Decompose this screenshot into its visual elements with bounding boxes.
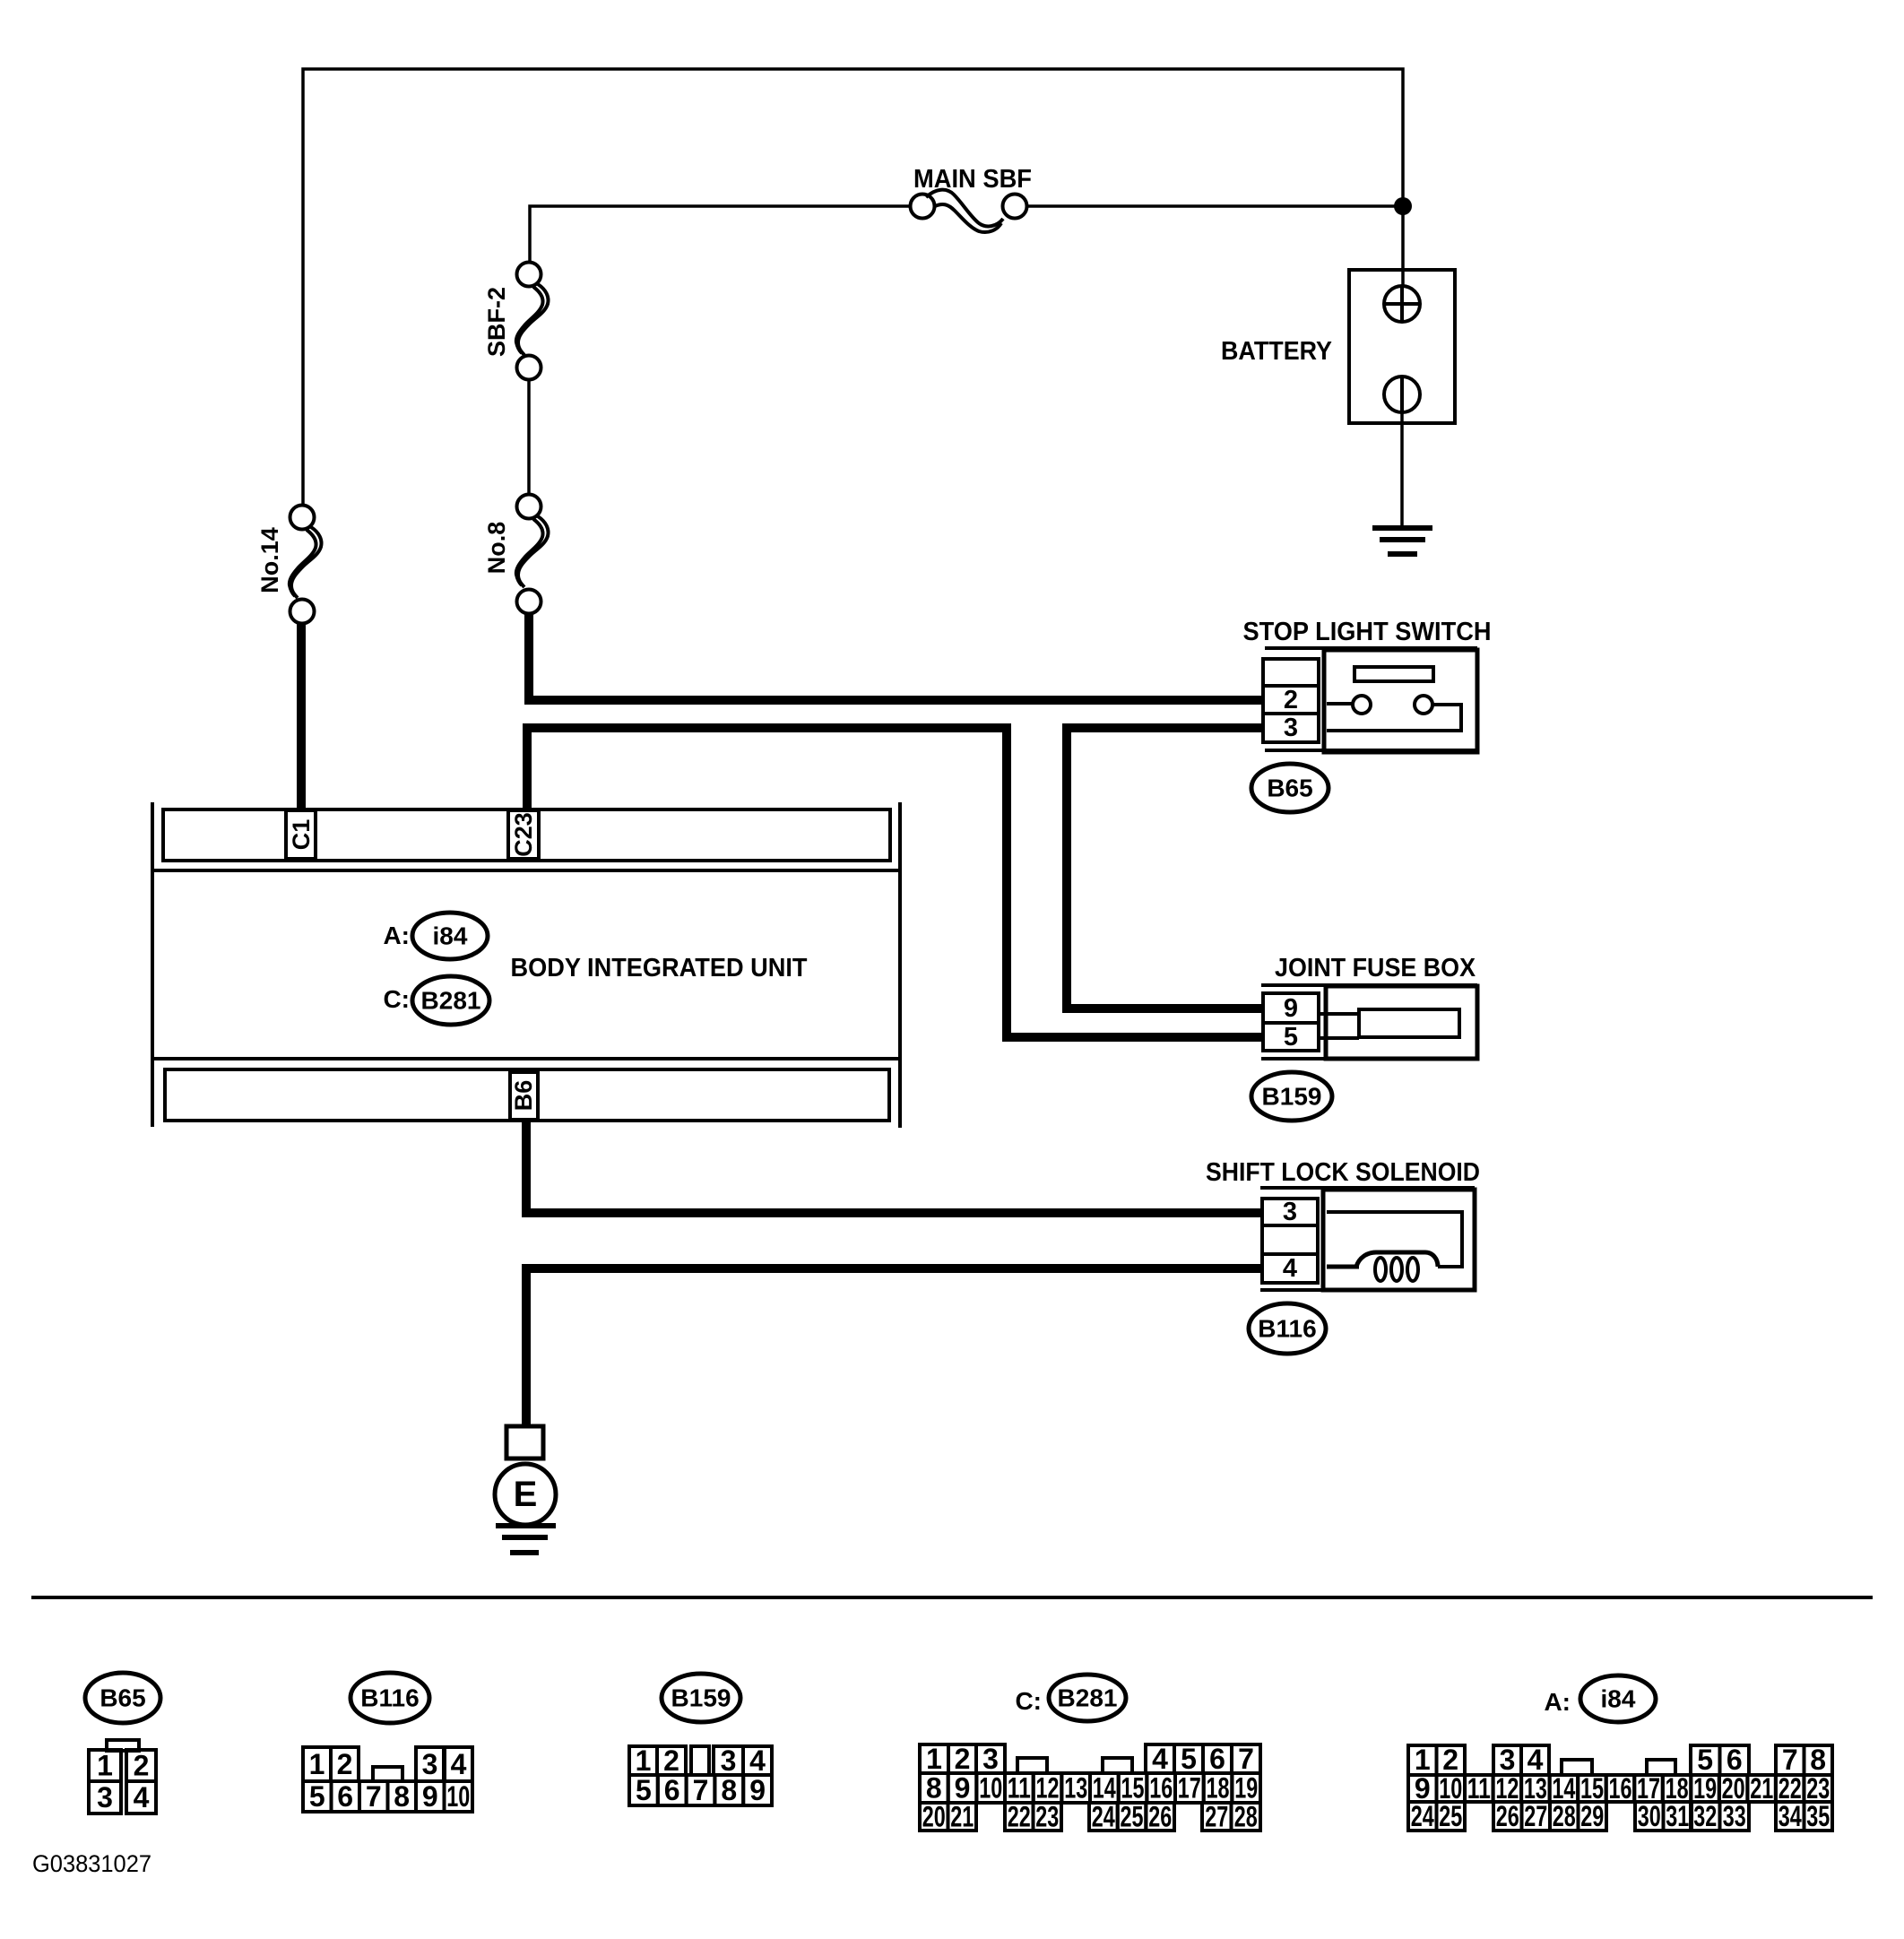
svg-text:JOINT FUSE BOX: JOINT FUSE BOX	[1275, 954, 1476, 982]
svg-text:3: 3	[982, 1743, 999, 1775]
svg-text:12: 12	[1036, 1772, 1060, 1805]
svg-text:SHIFT LOCK SOLENOID: SHIFT LOCK SOLENOID	[1206, 1158, 1480, 1187]
svg-text:27: 27	[1524, 1800, 1547, 1832]
node A: i84 reference	[383, 913, 488, 959]
svg-text:3: 3	[1500, 1744, 1516, 1776]
svg-text:22: 22	[1008, 1801, 1031, 1833]
fuse No.8	[516, 495, 549, 614]
wire No.8 to stop light switch pin 2 (thick)	[529, 613, 1263, 700]
connector B116	[1249, 1303, 1326, 1354]
connector B65	[1251, 764, 1328, 812]
stop light switch SW1	[1263, 648, 1477, 752]
svg-text:3: 3	[1283, 1198, 1297, 1226]
connector B281 pinout	[920, 1675, 1260, 1833]
wire C23 to joint fuse box pin 5 (thick)	[527, 728, 1263, 1037]
svg-text:3: 3	[97, 1781, 113, 1813]
svg-text:C:: C:	[1015, 1687, 1042, 1715]
svg-text:4: 4	[1283, 1254, 1297, 1283]
svg-text:STOP LIGHT SWITCH: STOP LIGHT SWITCH	[1243, 618, 1492, 646]
svg-text:7: 7	[1238, 1743, 1254, 1775]
svg-text:MAIN SBF: MAIN SBF	[913, 165, 1032, 194]
svg-text:4: 4	[1528, 1744, 1544, 1776]
svg-text:11: 11	[1008, 1772, 1031, 1805]
svg-text:BODY INTEGRATED UNIT: BODY INTEGRATED UNIT	[511, 954, 808, 982]
connector B159 pinout	[629, 1674, 772, 1806]
svg-text:7: 7	[1782, 1744, 1798, 1776]
wire SBF-2 to No.8	[527, 380, 531, 495]
svg-text:No.8: No.8	[483, 522, 510, 575]
svg-text:29: 29	[1580, 1800, 1604, 1832]
svg-text:31: 31	[1666, 1800, 1689, 1832]
svg-text:14: 14	[1093, 1772, 1116, 1805]
svg-text:9: 9	[1284, 994, 1298, 1023]
svg-text:4: 4	[749, 1744, 766, 1777]
fuse MAIN SBF	[911, 190, 1027, 232]
wire No.14 to C1 (thick)	[297, 623, 306, 811]
body integrated unit U1	[152, 802, 900, 1128]
svg-text:6: 6	[1727, 1744, 1743, 1776]
svg-text:8: 8	[721, 1774, 737, 1806]
svg-text:C:: C:	[383, 985, 410, 1013]
svg-text:27: 27	[1205, 1801, 1228, 1833]
separator line	[31, 1596, 1873, 1599]
wire junction to MAIN SBF	[1026, 204, 1403, 208]
pin C1	[286, 810, 316, 859]
wire battery top feed	[303, 69, 1403, 506]
svg-text:16: 16	[1609, 1772, 1632, 1805]
svg-text:4: 4	[451, 1748, 467, 1780]
svg-text:1: 1	[309, 1748, 325, 1780]
wire stop light switch pin 3 to joint fuse box pin 9 (thick)	[1067, 728, 1263, 1008]
svg-text:B6: B6	[510, 1080, 537, 1112]
svg-text:24: 24	[1411, 1800, 1434, 1832]
svg-text:5: 5	[1284, 1023, 1298, 1052]
svg-text:3: 3	[422, 1748, 438, 1780]
svg-text:C1: C1	[288, 819, 315, 851]
svg-text:32: 32	[1693, 1800, 1717, 1832]
pin B6	[510, 1072, 538, 1120]
svg-text:8: 8	[926, 1772, 942, 1805]
svg-text:19: 19	[1234, 1772, 1258, 1805]
svg-text:5: 5	[1697, 1744, 1713, 1776]
svg-text:2: 2	[1284, 686, 1298, 714]
svg-text:6: 6	[337, 1780, 353, 1813]
svg-text:10: 10	[979, 1772, 1002, 1805]
svg-text:1: 1	[97, 1750, 113, 1782]
svg-text:1: 1	[926, 1743, 942, 1775]
svg-text:C23: C23	[510, 812, 537, 857]
wire B6 to shift lock solenoid pin 3 (thick)	[526, 1121, 1262, 1213]
svg-text:15: 15	[1121, 1772, 1145, 1805]
svg-text:26: 26	[1148, 1801, 1172, 1833]
svg-text:2: 2	[134, 1750, 150, 1782]
svg-text:4: 4	[134, 1781, 150, 1813]
fuse SBF-2	[516, 263, 549, 380]
svg-text:28: 28	[1553, 1800, 1576, 1832]
svg-text:24: 24	[1092, 1801, 1115, 1833]
svg-text:28: 28	[1234, 1801, 1258, 1833]
svg-text:34: 34	[1779, 1800, 1802, 1832]
svg-text:1: 1	[636, 1744, 652, 1777]
joint fuse box F1	[1261, 985, 1477, 1059]
battery B1	[1349, 206, 1455, 526]
svg-text:20: 20	[922, 1801, 946, 1833]
svg-text:i84: i84	[433, 922, 468, 950]
node battery junction	[1394, 197, 1412, 215]
svg-text:17: 17	[1178, 1772, 1201, 1805]
wire shift lock solenoid pin 4 to ground E (thick)	[526, 1268, 1262, 1427]
svg-text:B65: B65	[100, 1684, 145, 1712]
connector i84 pinout	[1408, 1675, 1832, 1832]
svg-text:B116: B116	[1258, 1315, 1316, 1343]
connector B159	[1251, 1072, 1332, 1121]
svg-text:2: 2	[663, 1744, 679, 1777]
svg-text:9: 9	[749, 1774, 766, 1806]
ground battery	[1372, 528, 1432, 554]
svg-text:B159: B159	[1262, 1083, 1322, 1111]
svg-text:11: 11	[1467, 1772, 1491, 1805]
connector B116 pinout	[303, 1673, 472, 1813]
svg-text:26: 26	[1496, 1800, 1519, 1832]
svg-text:3: 3	[721, 1744, 737, 1777]
svg-text:B116: B116	[360, 1684, 419, 1712]
svg-text:25: 25	[1121, 1801, 1144, 1833]
svg-text:10: 10	[446, 1780, 470, 1813]
svg-text:7: 7	[366, 1780, 382, 1813]
svg-text:33: 33	[1723, 1800, 1746, 1832]
wire MAIN SBF to SBF-2	[530, 206, 911, 263]
svg-text:13: 13	[1064, 1772, 1087, 1805]
pin C23	[508, 810, 539, 859]
svg-text:i84: i84	[1601, 1685, 1636, 1713]
svg-text:8: 8	[394, 1780, 410, 1813]
svg-text:2: 2	[955, 1743, 971, 1775]
svg-text:E: E	[514, 1475, 538, 1514]
svg-text:5: 5	[636, 1774, 652, 1806]
svg-text:B159: B159	[671, 1684, 731, 1712]
svg-text:21: 21	[1750, 1772, 1773, 1805]
svg-text:16: 16	[1149, 1772, 1173, 1805]
svg-text:9: 9	[422, 1780, 438, 1813]
svg-text:21: 21	[950, 1801, 974, 1833]
svg-text:B281: B281	[1058, 1684, 1118, 1712]
svg-text:SBF-2: SBF-2	[483, 287, 510, 357]
svg-text:18: 18	[1207, 1772, 1230, 1805]
svg-text:3: 3	[1284, 714, 1298, 742]
svg-text:5: 5	[309, 1780, 325, 1813]
svg-text:No.14: No.14	[256, 527, 283, 593]
svg-text:6: 6	[664, 1774, 680, 1806]
svg-text:6: 6	[1209, 1743, 1225, 1775]
svg-text:30: 30	[1638, 1800, 1661, 1832]
svg-text:9: 9	[955, 1772, 971, 1805]
svg-text:G03831027: G03831027	[32, 1850, 151, 1877]
shift lock solenoid L1	[1260, 1188, 1475, 1290]
svg-text:B281: B281	[421, 987, 481, 1015]
fuse No.14	[290, 506, 322, 624]
svg-text:A:: A:	[1544, 1688, 1571, 1716]
connector B65 pinout	[85, 1673, 160, 1813]
svg-text:8: 8	[1810, 1744, 1826, 1776]
svg-text:25: 25	[1439, 1800, 1462, 1832]
svg-text:B65: B65	[1267, 775, 1312, 802]
svg-text:5: 5	[1181, 1743, 1197, 1775]
svg-text:23: 23	[1035, 1801, 1059, 1833]
svg-text:1: 1	[1415, 1744, 1431, 1776]
svg-text:A:: A:	[383, 922, 410, 949]
node C: B281 reference	[383, 976, 489, 1025]
svg-text:35: 35	[1806, 1800, 1830, 1832]
svg-text:7: 7	[693, 1774, 709, 1806]
svg-text:2: 2	[1442, 1744, 1458, 1776]
svg-text:BATTERY: BATTERY	[1221, 337, 1332, 366]
svg-text:2: 2	[337, 1748, 353, 1780]
ground E	[495, 1426, 556, 1553]
svg-text:4: 4	[1152, 1743, 1168, 1775]
